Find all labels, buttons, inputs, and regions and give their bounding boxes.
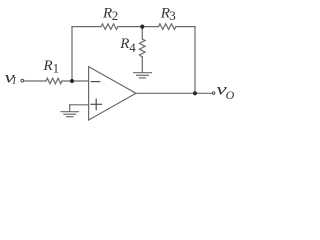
svg-text:R: R (43, 58, 53, 74)
svg-text:I: I (12, 76, 17, 87)
svg-text:R: R (102, 5, 112, 21)
svg-text:3: 3 (169, 8, 176, 23)
svg-text:O: O (226, 88, 235, 102)
svg-text:4: 4 (129, 40, 136, 55)
svg-text:1: 1 (53, 61, 60, 76)
svg-text:2: 2 (112, 8, 119, 23)
svg-text:R: R (119, 36, 129, 52)
